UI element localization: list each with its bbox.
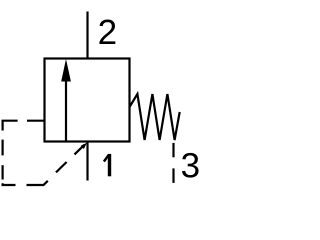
flow arrow shaft inside body	[65, 80, 67, 142]
port 1 wire (bottom)	[86, 142, 88, 181]
spring	[130, 94, 180, 140]
valve body square	[45, 59, 130, 142]
port label 2	[99, 20, 115, 44]
pilot arrow head	[81, 143, 87, 149]
pilot line: diagonal dash 2	[56, 162, 67, 172]
flow arrow head	[61, 59, 71, 82]
port label 3	[182, 153, 199, 178]
pilot line: bottom-left corner dash	[3, 183, 16, 185]
pilot line: left edge dash 3	[1, 165, 3, 179]
pilot line: top edge dash with corner	[3, 121, 18, 131]
drain port 3 dashed wire	[172, 143, 174, 157]
pilot line: left edge dash 2	[1, 140, 3, 156]
pilot line: bottom edge dash with bend into diagonal	[27, 181, 48, 185]
port 2 wire (top)	[86, 12, 88, 59]
port label 1	[104, 154, 110, 176]
pilot line: diagonal dash 3 (to arrow)	[75, 145, 85, 155]
pilot line: top edge dash 2	[27, 120, 44, 122]
